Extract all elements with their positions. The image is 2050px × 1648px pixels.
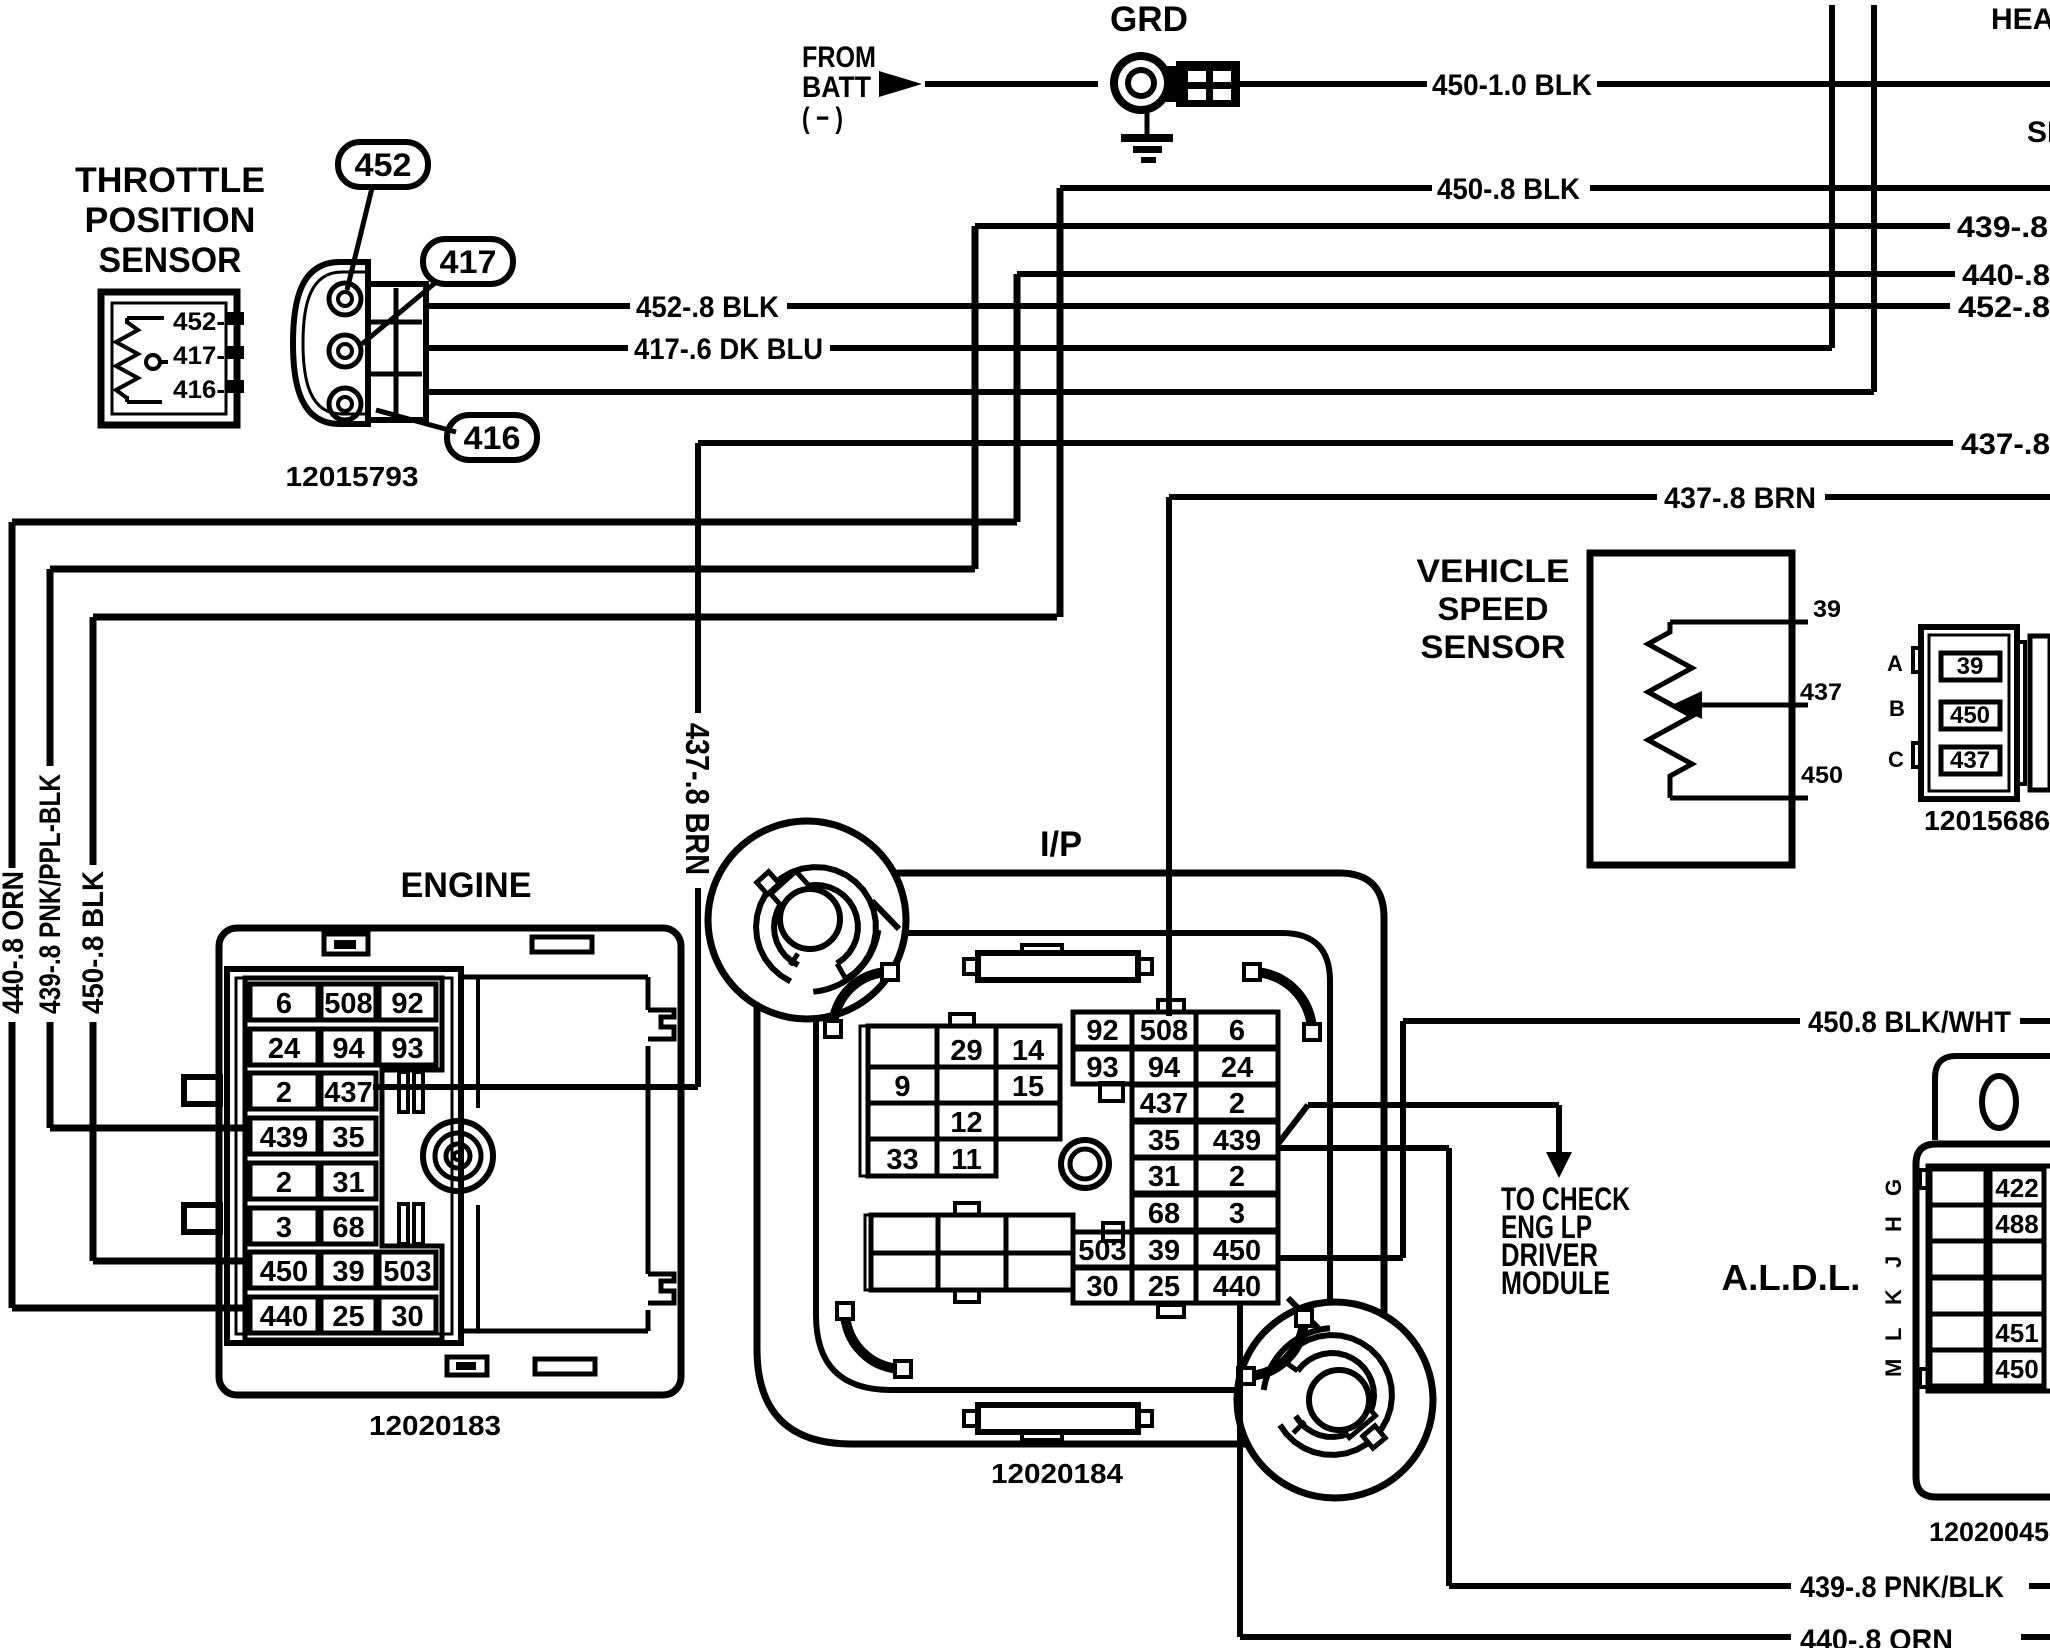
svg-text:422: 422	[1995, 1173, 2038, 1203]
svg-text:439-.8: 439-.8	[1957, 211, 2048, 244]
svg-text:3: 3	[1229, 1198, 1245, 1230]
svg-text:24: 24	[268, 1033, 300, 1065]
svg-text:14: 14	[1012, 1035, 1044, 1067]
svg-text:450: 450	[1995, 1354, 2038, 1384]
svg-text:2: 2	[1229, 1161, 1245, 1193]
svg-text:508: 508	[1140, 1015, 1188, 1047]
svg-text:POSITION: POSITION	[85, 201, 256, 240]
svg-text:450-.8 BLK: 450-.8 BLK	[77, 871, 110, 1014]
svg-text:417: 417	[440, 244, 497, 280]
svg-text:35: 35	[332, 1122, 364, 1154]
svg-text:12015793: 12015793	[286, 461, 419, 492]
svg-text:B: B	[1889, 696, 1905, 721]
svg-text:12020184: 12020184	[991, 1458, 1123, 1489]
svg-text:31: 31	[1148, 1161, 1180, 1193]
svg-text:6: 6	[276, 988, 292, 1020]
svg-text:440: 440	[260, 1301, 308, 1333]
svg-text:450-.8 BLK: 450-.8 BLK	[1437, 173, 1580, 206]
svg-text:92: 92	[391, 988, 423, 1020]
svg-text:417-.6 DK BLU: 417-.6 DK BLU	[634, 333, 823, 366]
svg-text:452-.8 BLK: 452-.8 BLK	[636, 291, 779, 324]
svg-text:2: 2	[276, 1167, 292, 1199]
svg-text:I/P: I/P	[1040, 825, 1082, 864]
svg-text:L: L	[1881, 1328, 1906, 1341]
svg-text:HEAT: HEAT	[1991, 3, 2050, 36]
svg-text:39: 39	[332, 1256, 364, 1288]
svg-text:416: 416	[464, 420, 521, 456]
svg-text:416-: 416-	[173, 376, 225, 404]
svg-text:MODULE: MODULE	[1501, 1265, 1610, 1301]
svg-text:451: 451	[1995, 1318, 2038, 1348]
svg-text:GRD: GRD	[1110, 0, 1188, 39]
svg-text:31: 31	[332, 1167, 364, 1199]
svg-text:93: 93	[1086, 1052, 1118, 1084]
svg-text:12020045: 12020045	[1929, 1517, 2049, 1547]
svg-text:94: 94	[1148, 1052, 1180, 1084]
svg-text:439: 439	[260, 1122, 308, 1154]
svg-text:450: 450	[1213, 1235, 1261, 1267]
svg-text:11: 11	[951, 1144, 982, 1176]
svg-text:437: 437	[1140, 1088, 1188, 1120]
svg-text:SENSOR: SENSOR	[99, 241, 242, 280]
svg-text:C: C	[1888, 747, 1904, 772]
svg-text:439: 439	[1213, 1125, 1261, 1157]
svg-text:94: 94	[332, 1033, 364, 1065]
svg-text:93: 93	[391, 1033, 423, 1065]
svg-text:39: 39	[1813, 596, 1841, 623]
svg-text:24: 24	[1221, 1052, 1253, 1084]
svg-text:A.L.D.L.: A.L.D.L.	[1722, 1257, 1861, 1298]
svg-text:SPE: SPE	[2027, 116, 2050, 149]
svg-text:39: 39	[1957, 653, 1984, 680]
svg-text:439-.8 PNK/BLK: 439-.8 PNK/BLK	[1800, 1571, 2004, 1604]
svg-text:15: 15	[1012, 1071, 1044, 1103]
svg-text:9: 9	[894, 1071, 910, 1103]
svg-text:2: 2	[276, 1077, 292, 1109]
svg-text:12015686: 12015686	[1924, 805, 2050, 836]
svg-text:440-.8 ORN: 440-.8 ORN	[1800, 1624, 1953, 1648]
svg-text:J: J	[1881, 1256, 1906, 1268]
svg-text:437: 437	[324, 1077, 372, 1109]
svg-text:SENSOR: SENSOR	[1421, 629, 1566, 665]
svg-text:450.8 BLK/WHT: 450.8 BLK/WHT	[1808, 1006, 2011, 1039]
svg-text:M: M	[1881, 1359, 1906, 1377]
svg-text:H: H	[1881, 1216, 1906, 1232]
svg-text:450: 450	[260, 1256, 308, 1288]
svg-text:THROTTLE: THROTTLE	[75, 161, 265, 200]
svg-text:68: 68	[332, 1212, 364, 1244]
svg-text:437-.8 BRN: 437-.8 BRN	[1664, 482, 1816, 515]
svg-text:30: 30	[1086, 1271, 1118, 1303]
svg-text:33: 33	[886, 1144, 918, 1176]
svg-text:25: 25	[1148, 1271, 1180, 1303]
svg-text:68: 68	[1148, 1198, 1180, 1230]
svg-text:FROM: FROM	[802, 41, 876, 74]
svg-text:92: 92	[1086, 1015, 1118, 1047]
svg-text:39: 39	[1148, 1235, 1180, 1267]
svg-text:437: 437	[1800, 679, 1842, 706]
svg-text:12: 12	[950, 1107, 982, 1139]
svg-text:VEHICLE: VEHICLE	[1417, 553, 1570, 589]
svg-text:452-: 452-	[173, 308, 225, 336]
svg-text:452: 452	[355, 147, 412, 183]
svg-text:450: 450	[1801, 762, 1843, 789]
svg-text:3: 3	[276, 1212, 292, 1244]
svg-text:452-.8: 452-.8	[1958, 291, 2050, 324]
svg-text:25: 25	[332, 1301, 364, 1333]
svg-text:503: 503	[383, 1256, 431, 1288]
svg-text:ENGINE: ENGINE	[401, 866, 532, 905]
svg-text:30: 30	[391, 1301, 423, 1333]
svg-text:29: 29	[950, 1035, 982, 1067]
svg-text:G: G	[1881, 1179, 1906, 1196]
svg-text:488: 488	[1995, 1209, 2038, 1239]
svg-text:( − ): ( − )	[802, 102, 843, 135]
svg-text:440: 440	[1213, 1271, 1261, 1303]
svg-text:440-.8: 440-.8	[1962, 259, 2050, 292]
svg-text:35: 35	[1148, 1125, 1180, 1157]
svg-text:BATT: BATT	[802, 71, 871, 104]
svg-text:439-.8 PNK/PPL-BLK: 439-.8 PNK/PPL-BLK	[34, 774, 67, 1014]
svg-text:6: 6	[1229, 1015, 1245, 1047]
svg-text:437-.8: 437-.8	[1961, 428, 2050, 461]
svg-text:440-.8 ORN: 440-.8 ORN	[0, 871, 30, 1014]
svg-text:K: K	[1881, 1289, 1906, 1305]
svg-text:450: 450	[1950, 702, 1990, 729]
svg-text:450-1.0 BLK: 450-1.0 BLK	[1432, 69, 1592, 102]
svg-text:417-: 417-	[173, 342, 225, 370]
svg-text:437-.8 BRN: 437-.8 BRN	[679, 723, 716, 875]
svg-text:437: 437	[1950, 747, 1990, 774]
svg-text:A: A	[1887, 651, 1903, 676]
svg-text:SPEED: SPEED	[1438, 591, 1549, 627]
svg-text:508: 508	[324, 988, 372, 1020]
svg-text:12020183: 12020183	[369, 1410, 501, 1441]
svg-text:2: 2	[1229, 1088, 1245, 1120]
